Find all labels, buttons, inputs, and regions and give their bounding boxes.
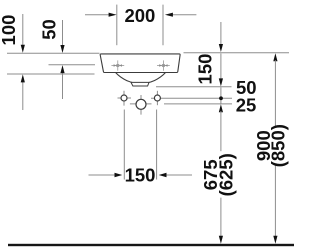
dimension 150 bottom leader right [159,173,192,177]
mounting hole left circle [118,91,132,106]
tap hole symbol left [111,60,124,70]
dimension 200 leader left [85,13,117,17]
wire rim extension line left [7,52,100,54]
dot at line B [219,96,223,100]
wire 200-dim extension right [162,5,164,46]
mounting hole right circle [156,91,158,105]
dimension 50-left lower arrow (up at tap-level line) [60,65,64,99]
basin bowl arc [116,73,166,84]
arrow down at floor (675) [219,236,223,244]
svg-text:150: 150 [125,165,156,186]
wire 200-dim extension left [116,5,118,46]
arrow down at floor (900) [273,236,277,244]
arrow up at rim extension line [273,53,277,61]
svg-text:25: 25 [236,95,257,116]
dimension 100 lower arrow (up at rim-bottom line) [21,74,25,110]
svg-text:675(625): 675(625) [200,153,237,196]
arrow up at line C (top of 675) [219,104,223,112]
wire tap-level line (50 ref) [49,64,96,66]
floor line [8,244,294,246]
dimension 200 leader right [165,13,197,17]
tap hole symbol right [157,60,170,70]
dimension 100 upper arrow (down at rim line) [21,14,25,53]
wire 900 shaft lower [274,165,276,237]
wire rim extension line right [184,52,290,54]
wire rim-bottom line (100 ref) [7,73,95,75]
dimension 150-right vertical chain at x=221 [219,22,223,244]
svg-text:50: 50 [39,19,60,40]
wire 675 shaft lower [220,198,222,237]
dimension 50-left upper arrow (down at rim line) [60,20,64,53]
wire line A (drain bottom ref, 150/50) [156,86,232,88]
arrow down at line A [219,78,223,86]
wire 675 shaft upper [220,111,222,151]
wire line C segment right (drain centerline, 25 ref) [164,103,232,105]
wire 900 shaft upper [274,60,276,126]
arrow down at rim line [219,44,223,52]
dimension 150 bottom leader left [89,173,123,177]
svg-text:150: 150 [195,54,216,85]
wire upper shaft [220,22,222,45]
drain hole center circle crosshair [130,95,152,115]
drain hole center circle [136,99,146,109]
svg-text:900(850): 900(850) [253,124,289,167]
washbasin rim outline (front view) [100,54,180,73]
wire shaft rim to line A [220,54,222,81]
drain flange [131,82,149,86]
wire shaft line A to line C [220,87,222,103]
dimension 900 vertical at x=275 [273,53,277,244]
svg-text:100: 100 [0,15,19,46]
wire hole extension line right (down to 150 dim) [156,110,158,180]
wire hole extension line left (down to 150 dim) [123,110,125,180]
wire line B segment right (hole centerline, 50/25 ref) [151,97,232,99]
svg-text:200: 200 [124,5,155,26]
